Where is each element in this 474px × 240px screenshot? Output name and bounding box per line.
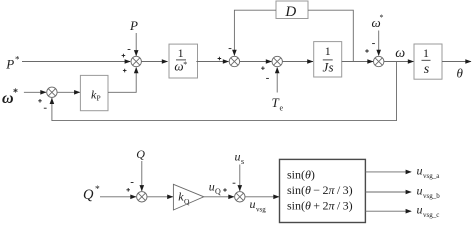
wire output a (365, 170, 411, 175)
node uvsg_a label (417, 163, 441, 180)
svg-text:P: P (5, 57, 14, 72)
summing junction S5 (38, 87, 57, 108)
svg-text:vsg_c: vsg_c (423, 211, 439, 219)
svg-text:θ: θ (457, 66, 464, 81)
summing junction S7 (223, 183, 245, 202)
wire S5 to block kp (57, 90, 80, 95)
wire S2 to summing junction S3 (240, 59, 272, 64)
svg-text:e: e (280, 104, 284, 113)
node w* row2 label (2, 88, 18, 108)
svg-text:u: u (417, 203, 423, 217)
wire w* to summing junction S5 (24, 90, 47, 95)
svg-text:vsg: vsg (256, 205, 266, 213)
summing junction S6 (126, 183, 147, 203)
svg-text:ω: ω (2, 90, 14, 107)
svg-text:u: u (417, 183, 423, 197)
wire output c (365, 209, 411, 214)
block 1/Js (314, 42, 342, 77)
node uvsg label (250, 197, 267, 214)
wire P* to summing junction S1 (22, 59, 131, 64)
wire output b (365, 190, 411, 195)
svg-text:u: u (250, 197, 256, 211)
node P* input label (5, 55, 20, 72)
wire S7 to sin block (245, 195, 280, 200)
summing junction S2 (218, 49, 240, 67)
svg-text:vsg_a: vsg_a (423, 172, 440, 180)
svg-text:Q: Q (184, 197, 190, 206)
svg-text:Js: Js (322, 60, 333, 75)
wire tap to D input (308, 10, 353, 61)
amplifier kQ triangle (173, 184, 203, 210)
node uQ label (209, 180, 221, 197)
svg-text:D: D (284, 4, 296, 20)
node Te label (272, 95, 284, 113)
svg-text:Q: Q (83, 187, 94, 203)
node w label (395, 46, 405, 61)
svg-text:Q: Q (215, 187, 221, 196)
node uvsg_c label (417, 203, 440, 220)
node Q label (136, 147, 145, 161)
summing junction S3 (261, 56, 282, 78)
svg-text:*: * (13, 88, 18, 99)
wire S3 to block 1/Js (282, 59, 313, 64)
wire S1 to block 1/w* (141, 59, 168, 64)
node w* upper label (372, 13, 384, 30)
wire 1/s output to theta (442, 59, 472, 64)
block 1/w* (169, 44, 198, 78)
svg-text:P: P (129, 18, 138, 33)
node P label (129, 18, 138, 33)
node Q* label (83, 185, 100, 203)
wire 1/w* to summing junction S2 (196, 59, 229, 64)
wire Te up into S3 (275, 67, 280, 93)
svg-text:s: s (424, 62, 430, 77)
svg-text:u: u (235, 150, 241, 164)
svg-text:ω: ω (395, 46, 405, 61)
svg-text:Q: Q (136, 147, 145, 161)
svg-text:u: u (417, 163, 423, 177)
node theta label (457, 66, 464, 81)
block sin generator (280, 159, 366, 222)
svg-text:T: T (272, 95, 280, 110)
svg-text:vsg_b: vsg_b (423, 192, 440, 200)
svg-text:1: 1 (423, 46, 429, 60)
block kp (80, 75, 108, 110)
wire S4 to block 1/s (384, 59, 414, 64)
block 1/s (414, 44, 442, 79)
wire S6 to amplifier kQ (147, 195, 173, 200)
wire feedback w to S5 (50, 62, 397, 121)
summing junction S1 (122, 50, 142, 73)
svg-text:*: * (380, 13, 384, 22)
wire Q* to summing junction S6 (100, 195, 137, 200)
svg-text:u: u (209, 180, 215, 194)
summing junction S4 (365, 44, 384, 67)
svg-text:*: * (15, 55, 20, 65)
wire kQ to summing junction S7 (204, 195, 235, 200)
wire Q down into S6 (140, 161, 145, 191)
svg-text:*: * (95, 185, 100, 195)
wire D output down into S2 (232, 10, 276, 56)
wire 1/Js to summing junction S4 (342, 59, 374, 64)
wire P down into S1 (134, 33, 139, 56)
svg-text:s: s (241, 157, 244, 166)
svg-text:1: 1 (325, 44, 331, 58)
wire w* down into S4 (376, 31, 381, 57)
block D (276, 1, 308, 20)
svg-text:P: P (97, 94, 101, 103)
node uvsg_b label (417, 183, 441, 200)
node us label (235, 150, 245, 167)
wire kp output up into S1 (108, 67, 139, 92)
svg-text:sin(θ): sin(θ) (287, 167, 315, 181)
svg-text:*: * (183, 60, 187, 69)
svg-text:sin(θ − 2π / 3): sin(θ − 2π / 3) (287, 183, 353, 197)
svg-text:sin(θ + 2π / 3): sin(θ + 2π / 3) (287, 198, 353, 212)
wire us down into S7 (238, 165, 243, 192)
